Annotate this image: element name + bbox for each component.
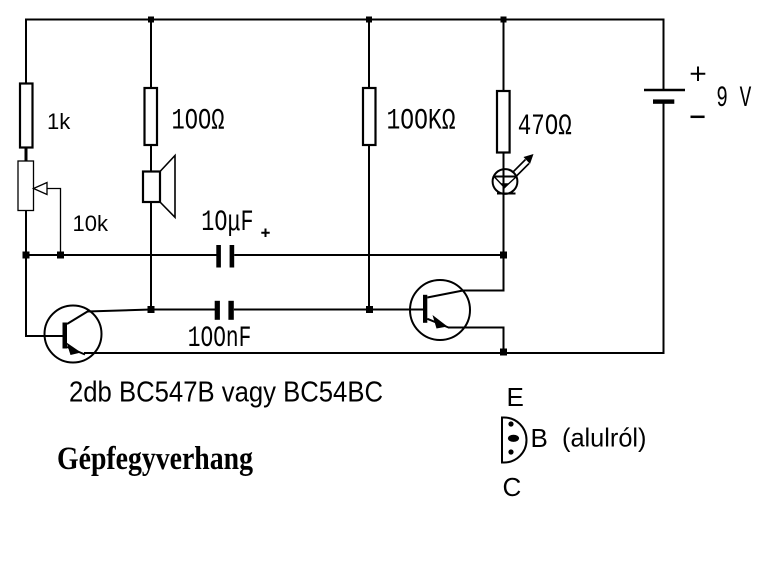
LED D1 cathode bar bbox=[497, 193, 516, 195]
svg-text:10k: 10k bbox=[73, 211, 109, 236]
resistor R2 100ohm bbox=[145, 88, 158, 145]
LED D1 light arrowhead bbox=[524, 154, 534, 164]
wire top rail bbox=[25, 19, 665, 21]
node Q1 collector / speaker / 100nF bbox=[148, 306, 155, 313]
wire 470 to LED and through to node bbox=[503, 153, 505, 256]
potentiometer P1 10k body bbox=[18, 161, 34, 211]
svg-text:B: B bbox=[531, 423, 548, 453]
pinout pin E dot bbox=[508, 421, 513, 426]
wire Q1 collector bbox=[87, 310, 151, 312]
node top rail / speaker branch bbox=[148, 17, 154, 23]
LED D1 circle bbox=[493, 169, 518, 194]
wire 100K branch top bbox=[368, 20, 370, 89]
battery B1 short plate bbox=[653, 99, 674, 103]
svg-text:9 V: 9 V bbox=[716, 82, 751, 116]
wire left branch top bbox=[25, 19, 27, 85]
wire speaker to collector node bbox=[150, 202, 152, 310]
svg-text:1OμF: 1OμF bbox=[201, 206, 253, 240]
resistor R4 470ohm bbox=[497, 91, 510, 153]
potentiometer wiper arrow bbox=[34, 183, 48, 195]
svg-text:1OOΩ: 1OOΩ bbox=[172, 105, 225, 139]
svg-text:1OOKΩ: 1OOKΩ bbox=[387, 105, 456, 139]
LED D1 triangle sides bbox=[495, 177, 517, 188]
transistor Q1 emitter diagonal bbox=[67, 347, 85, 355]
svg-text:1k: 1k bbox=[47, 109, 71, 134]
svg-text:Gépfegyverhang: Gépfegyverhang bbox=[57, 441, 253, 477]
wire speaker branch top bbox=[150, 20, 152, 89]
transistor Q1 emitter arrowhead bbox=[67, 343, 82, 356]
wire battery top bbox=[663, 19, 665, 90]
wire Q2 emitter to bottom rail bbox=[448, 328, 504, 353]
transistor Q1 base bar bbox=[63, 323, 68, 349]
wire 1k to pot bbox=[25, 148, 28, 162]
wire LED branch to Q2 collector bbox=[463, 255, 504, 291]
wire pot bottom / left branch to Q1 base bbox=[26, 211, 63, 337]
wire 100nF to Q2 base bbox=[234, 309, 423, 311]
transistor Q2 base bar bbox=[423, 295, 427, 323]
transistor Q1 collector diagonal bbox=[67, 312, 88, 325]
resistor R1 1k bbox=[20, 84, 33, 148]
svg-text:2db BC547B vagy BC54BC: 2db BC547B vagy BC54BC bbox=[69, 377, 383, 409]
svg-text:1OOnF: 1OOnF bbox=[188, 322, 252, 356]
transistor Q1 circle bbox=[45, 306, 102, 363]
node LED branch / 10uF wire bbox=[500, 252, 507, 259]
node wiper / 10uF wire bbox=[57, 252, 64, 259]
resistor R3 100Kohm bbox=[363, 88, 376, 145]
battery B1 long plate bbox=[644, 89, 685, 92]
node top rail / 100K branch bbox=[366, 17, 372, 23]
wire wiper to 10uF node bbox=[47, 189, 61, 256]
node left branch / 10uF wire bbox=[23, 252, 30, 259]
speaker LS1 cone bbox=[160, 156, 175, 218]
svg-text:C: C bbox=[503, 472, 522, 502]
transistor Q2 emitter diagonal bbox=[427, 319, 448, 328]
battery minus sign bbox=[691, 116, 705, 119]
speaker LS1 box bbox=[143, 172, 160, 203]
capacitor C1 plus sign bbox=[261, 229, 269, 238]
battery plus sign bbox=[691, 67, 706, 82]
wire 100K branch bottom bbox=[368, 145, 370, 310]
capacitor C1 10uF plates bbox=[216, 245, 221, 268]
LED D1 anode bar bbox=[493, 176, 518, 178]
wire 470 branch top bbox=[503, 20, 505, 92]
LED D1 filled apex bbox=[500, 183, 509, 188]
wire 10uF right bbox=[234, 254, 503, 256]
transistor Q2 emitter arrowhead bbox=[433, 315, 448, 329]
svg-text:E: E bbox=[507, 382, 524, 412]
node top rail / LED branch bbox=[501, 17, 507, 23]
svg-text:(alulról): (alulról) bbox=[562, 423, 647, 453]
wire 100nF left bbox=[151, 309, 215, 311]
capacitor C2 100nF plates bbox=[215, 301, 220, 320]
wire bottom rail bbox=[84, 352, 664, 354]
wire battery bottom bbox=[663, 104, 665, 355]
transistor Q2 circle bbox=[410, 280, 470, 340]
node Q2 emitter / bottom rail bbox=[500, 349, 507, 356]
transistor pinout D-shape (bottom view) bbox=[502, 418, 527, 463]
transistor Q2 collector diagonal bbox=[427, 291, 463, 298]
wire 10uF left bbox=[26, 254, 217, 256]
node 100K branch / base wire bbox=[366, 306, 373, 313]
wire 100ohm to speaker bbox=[150, 145, 152, 172]
pinout pin C dot bbox=[508, 449, 513, 454]
LED D1 light arrow shafts bbox=[513, 160, 530, 177]
pinout pin B dot bbox=[508, 435, 519, 442]
svg-text:47OΩ: 47OΩ bbox=[518, 110, 572, 144]
